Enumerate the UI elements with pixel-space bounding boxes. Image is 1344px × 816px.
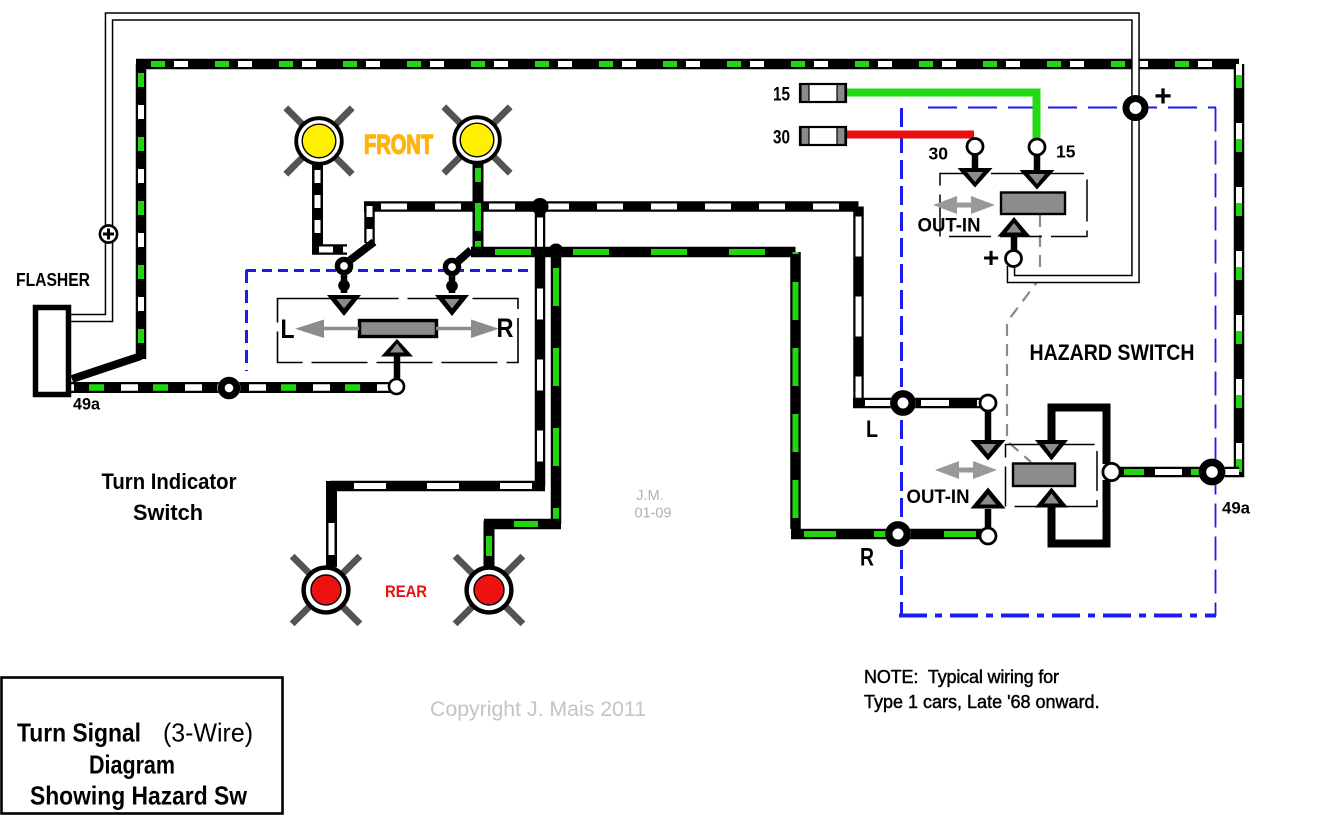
wire: black diagonal into R connector: [455, 250, 471, 264]
wire: green/white hazard output 49a row: [1118, 467, 1239, 478]
mechanical linkage (gray dash-dot between hazard knobs): [1007, 215, 1040, 462]
hazard lower OUT-IN double arrow: [935, 461, 997, 479]
wire: black/white left circuit top horizontal: [364, 201, 859, 212]
wire: red fuse 30 feed: [846, 131, 974, 139]
wire: black/white right vertical to hazard L terminal: [853, 207, 864, 400]
turn switch right arrow to R: [436, 320, 499, 339]
wire: green/black perimeter left vertical: [136, 64, 147, 359]
wire: black/white front-left lamp stem: [312, 162, 323, 249]
wire: green/black lower horizontal to rear-right lamp: [484, 519, 561, 530]
wire: black diagonal from flasher to left perimeter wire: [72, 356, 141, 379]
svg-text:FLASHER: FLASHER: [16, 270, 90, 290]
node + ring at top right battery junction: [1123, 95, 1149, 121]
svg-text:Copyright J. Mais 2011: Copyright J. Mais 2011: [430, 698, 646, 721]
hazard upper terminal 15: [1020, 139, 1055, 190]
wire: green/black perimeter right vertical: [1234, 64, 1245, 477]
wire: green/black hazard R row: [791, 529, 988, 540]
svg-text:Turn Indicator: Turn Indicator: [102, 469, 237, 494]
svg-text:15: 15: [773, 85, 790, 106]
svg-text:15: 15: [1056, 142, 1076, 162]
wire: black/white jog to L connector: [312, 244, 347, 255]
wire: black diagonal into L connector: [349, 242, 374, 261]
wire: black/white drop into rear-left lamp: [326, 481, 337, 567]
wire: green/black tee horizontal of right circuit: [471, 247, 796, 258]
svg-text:Turn Signal: Turn Signal: [17, 718, 141, 748]
svg-text:Switch: Switch: [133, 500, 203, 525]
wire: green/black drop into rear-right lamp: [484, 521, 495, 566]
hazard switch lower body box: [1006, 445, 1098, 507]
title box: [2, 678, 283, 814]
turn switch feed arrow (up): [381, 339, 413, 357]
turn switch slider knob: [360, 321, 437, 337]
wire: black/white hazard L row: [853, 398, 988, 409]
svg-text:30: 30: [773, 128, 790, 149]
svg-text:+: +: [1154, 80, 1172, 113]
hazard switch dashed outline (blue box): [899, 108, 1216, 617]
wire: green/black mid vertical to rear-right lamp: [551, 251, 562, 524]
wire: thin double-line battery + wire (flasher to hazard +): [68, 17, 1136, 319]
hazard upper slider knob: [1001, 193, 1065, 215]
lamp front-right (yellow): [444, 107, 510, 173]
terminal circle at 49a end under turn switch: [389, 355, 404, 394]
junction ring on L row: [890, 390, 916, 416]
lamp rear-right (red): [455, 556, 523, 624]
svg-text:+: +: [983, 242, 999, 273]
junction ring on hazard output row: [1199, 459, 1226, 486]
wire: black/white lower horizontal to rear-left lamp: [330, 481, 545, 492]
hazard lower loop wire bottom: [1052, 480, 1107, 544]
hazard lower output terminal circle: [1103, 463, 1120, 480]
connector + on battery wire: [100, 225, 117, 242]
hazard lower loop top arrow (down): [1035, 440, 1068, 461]
wire: green/black right vertical to hazard R terminal: [790, 252, 801, 529]
svg-text:L: L: [866, 416, 878, 443]
hazard upper feed arrow (up) + stem: [998, 217, 1031, 251]
wire: green/black front-right lamp stem: [473, 162, 484, 252]
hazard lower loop bottom arrow (up): [1035, 488, 1068, 508]
svg-text:Showing Hazard Sw: Showing Hazard Sw: [30, 781, 248, 811]
svg-text:30: 30: [929, 144, 949, 164]
svg-text:R: R: [860, 544, 874, 572]
junction ring on R row: [885, 521, 911, 547]
svg-text:HAZARD SWITCH: HAZARD SWITCH: [1030, 340, 1195, 365]
turn switch L input arrow: [327, 295, 361, 316]
fuse 15: [800, 84, 846, 102]
hazard upper + terminal circle: [1006, 251, 1022, 267]
hazard upper terminal 30: [958, 139, 993, 188]
wire: 49a green/black from flasher to turn switch: [71, 382, 396, 393]
svg-text:OUT-IN: OUT-IN: [918, 215, 981, 237]
wire: green fuse 15 feed: [846, 93, 1037, 141]
svg-text:NOTE: Typical wiring for: NOTE: Typical wiring for: [864, 667, 1059, 687]
svg-text:Diagram: Diagram: [89, 750, 175, 780]
turn indicator switch body box: [278, 299, 519, 363]
turn switch R input arrow: [435, 295, 469, 316]
fuse 30: [800, 127, 846, 145]
svg-text:J.M.: J.M.: [636, 488, 663, 504]
svg-text:49a: 49a: [73, 396, 101, 414]
turn indicator switch dashed outline (blue, partial box): [246, 270, 529, 371]
hazard lower slider knob: [1013, 464, 1075, 487]
lamp rear-left (red): [292, 556, 360, 624]
wire: black/white mid vertical to rear-left lamp: [535, 207, 546, 487]
svg-text:OUT-IN: OUT-IN: [907, 486, 970, 508]
svg-text:FRONT: FRONT: [364, 130, 433, 160]
turn switch L connector ring: [335, 257, 354, 293]
wire: green/black perimeter top horizontal: [136, 59, 1239, 70]
junction ring on 49a wire: [218, 377, 241, 400]
lamp front-left (yellow): [286, 108, 352, 174]
hazard lower L terminal: [971, 395, 1006, 461]
turn switch R connector ring: [443, 258, 462, 293]
svg-text:(3-Wire): (3-Wire): [163, 718, 253, 748]
hazard switch upper body box: [940, 174, 1087, 237]
svg-text:L: L: [281, 314, 295, 344]
svg-text:R: R: [497, 313, 514, 343]
svg-text:REAR: REAR: [385, 582, 427, 601]
hazard lower loop wire top: [1052, 408, 1107, 465]
hazard upper OUT-IN double arrow: [933, 196, 995, 214]
svg-text:01-09: 01-09: [634, 506, 671, 522]
svg-text:49a: 49a: [1222, 499, 1251, 518]
wire: black/white riser from turn switch L connector: [364, 206, 375, 243]
junction dot green/black circuit: [549, 244, 564, 259]
turn switch left arrow to L: [295, 320, 359, 339]
flasher relay box: [36, 308, 69, 395]
junction dot black/white circuit: [532, 198, 549, 215]
svg-text:Type 1 cars, Late '68 onward.: Type 1 cars, Late '68 onward.: [864, 692, 1100, 712]
hazard lower R terminal: [971, 488, 1006, 545]
